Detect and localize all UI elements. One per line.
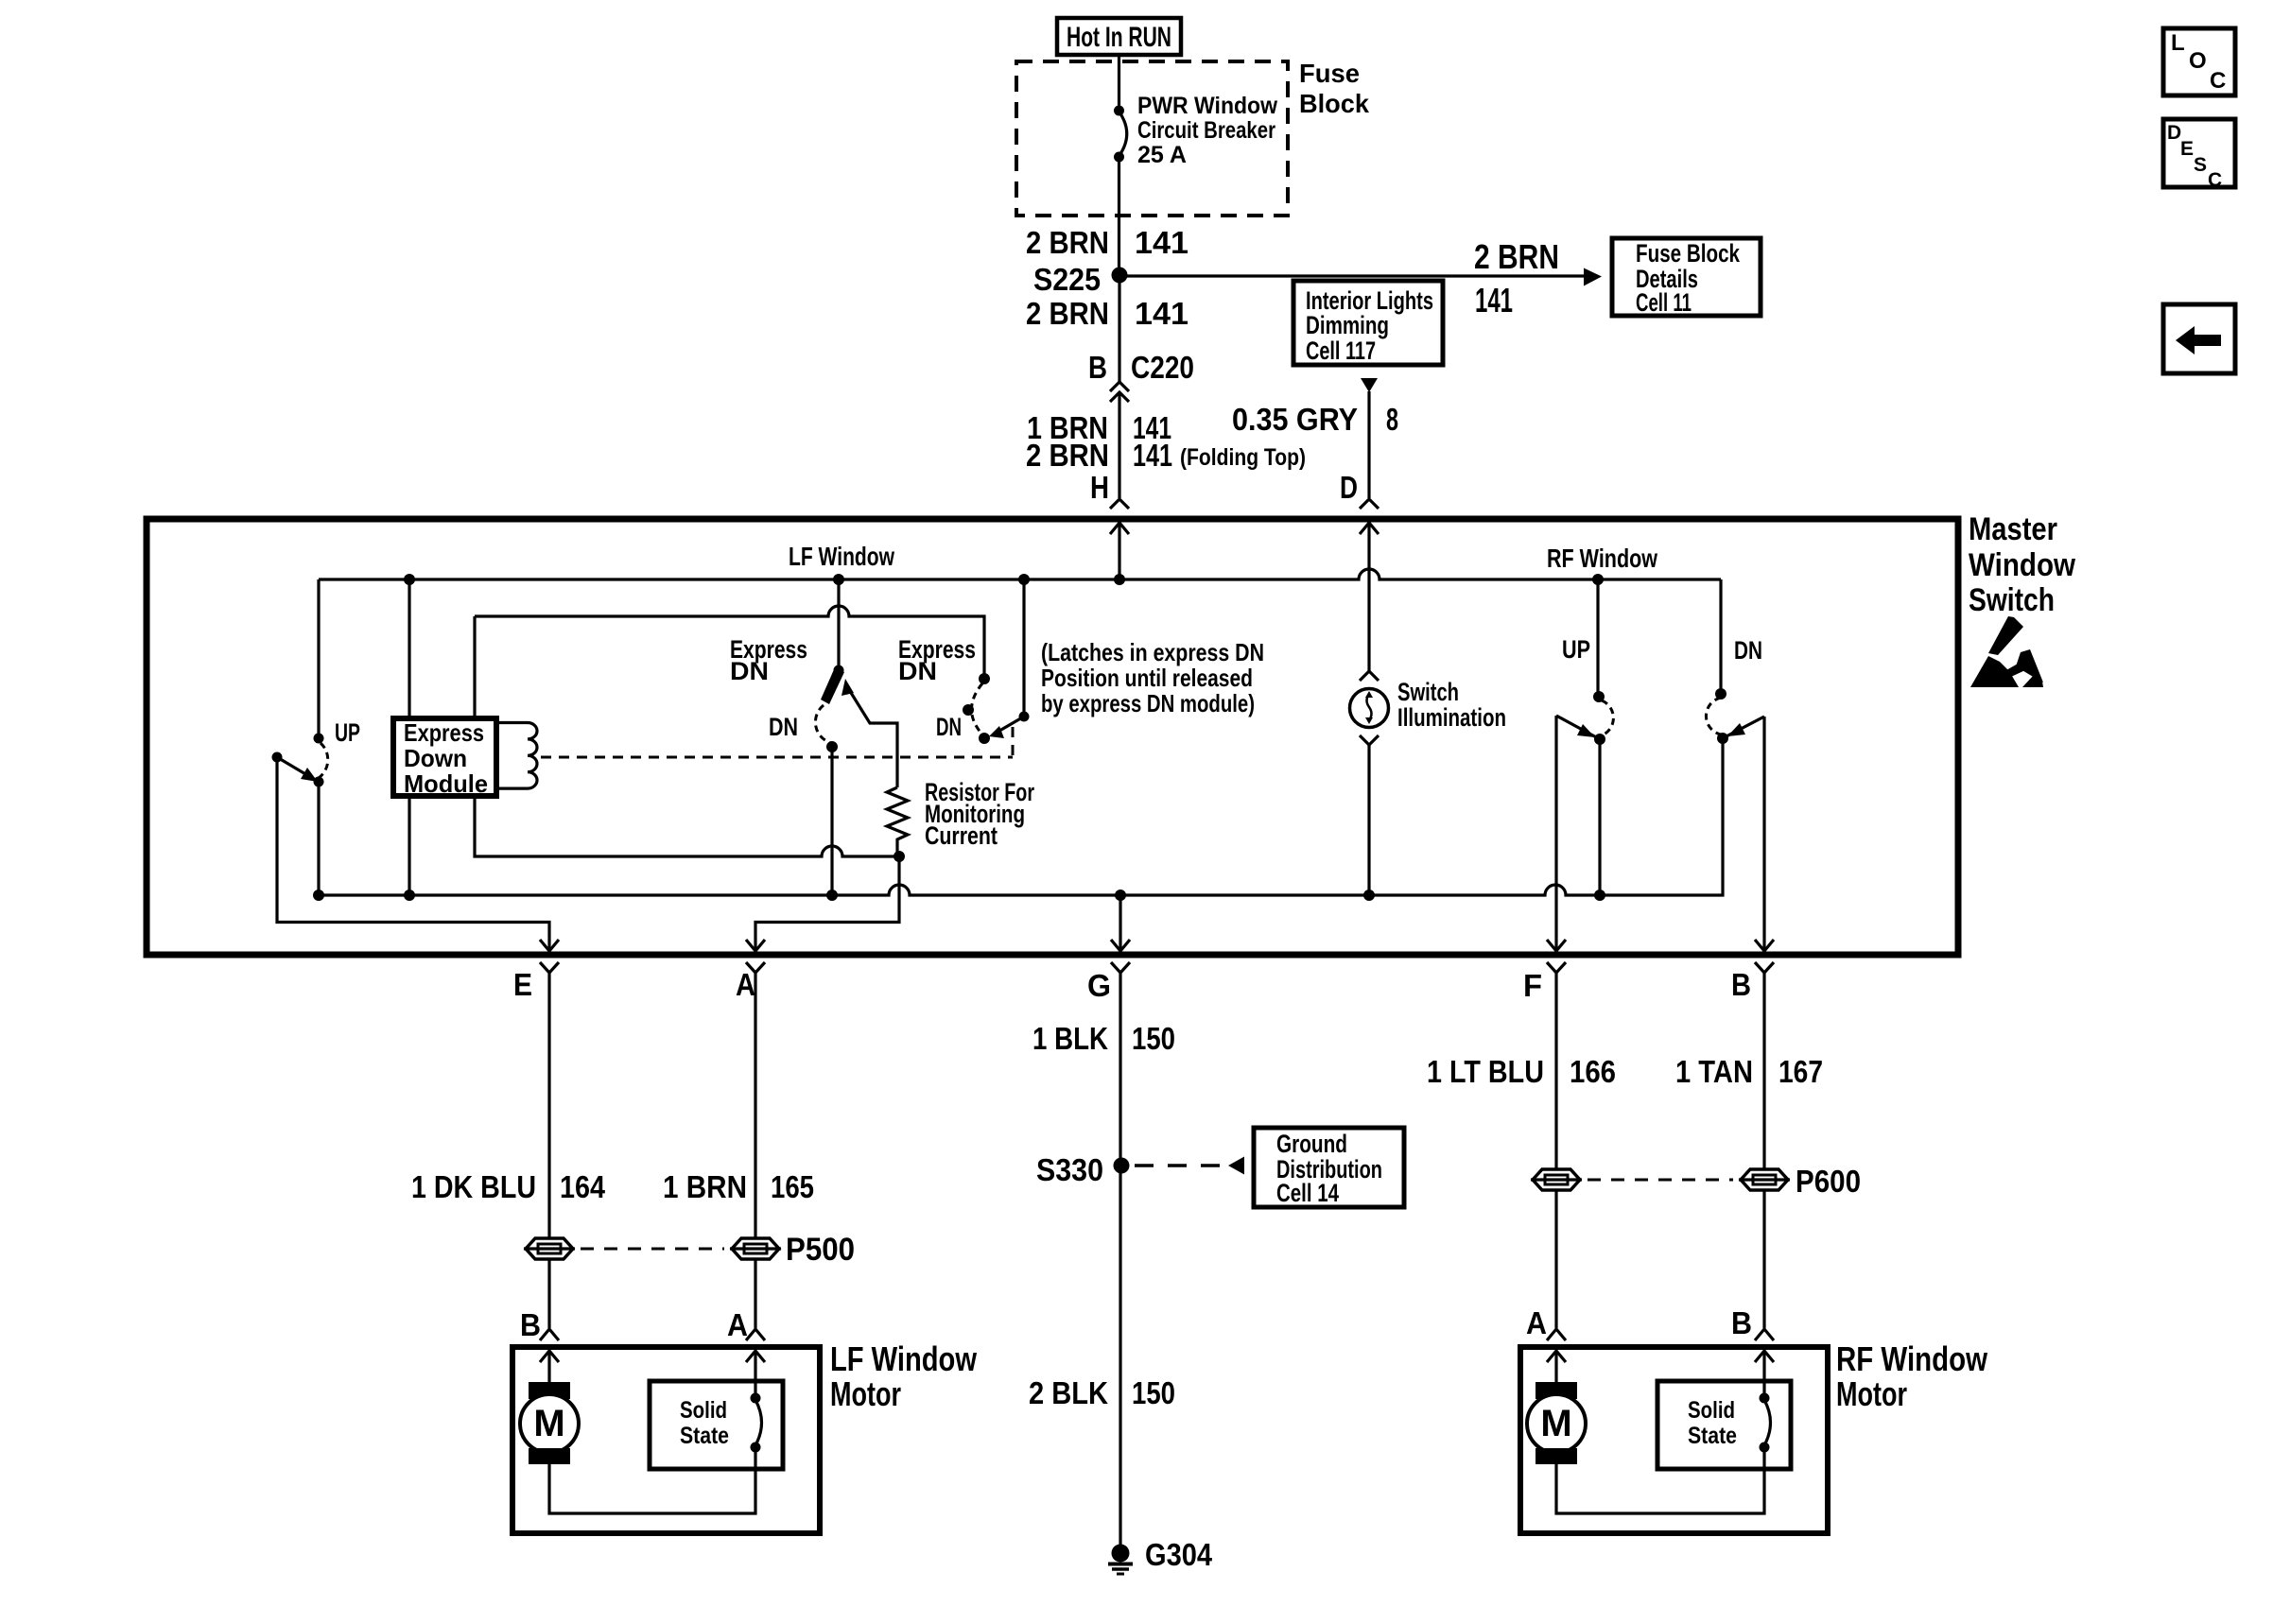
svg-text:DN: DN <box>936 713 962 741</box>
svg-text:DN: DN <box>1734 636 1762 665</box>
LF motor pin B connector <box>520 1307 559 1342</box>
svg-text:C: C <box>2210 68 2226 94</box>
wire label 1 BRN 165 <box>663 1169 814 1204</box>
svg-text:F: F <box>1523 968 1542 1003</box>
node: resistor to output <box>894 851 905 862</box>
svg-text:UP: UP <box>1562 635 1590 664</box>
svg-text:166: 166 <box>1570 1054 1616 1089</box>
LF solid state box <box>650 1381 783 1469</box>
svg-text:by express DN module): by express DN module) <box>1041 689 1255 717</box>
svg-text:PWR Window: PWR Window <box>1137 93 1278 119</box>
inner bus: module feed to right express-down contact (jumps over LF window wire) <box>475 606 984 718</box>
RF DN travel arc (dashed) <box>1706 698 1721 734</box>
svg-text:P600: P600 <box>1796 1164 1861 1199</box>
LOC reference box <box>2163 28 2235 95</box>
svg-text:B: B <box>1731 1305 1752 1340</box>
in-line connector P500 (E side) <box>524 1238 575 1259</box>
wire: LF UP pivot to pin E <box>277 758 549 949</box>
svg-text:C: C <box>2208 169 2222 191</box>
pin E exit arrow <box>540 940 559 951</box>
svg-text:M: M <box>1540 1403 1571 1444</box>
svg-text:Cell 11: Cell 11 <box>1636 288 1692 317</box>
LF motor M <box>520 1382 579 1464</box>
right express-down arm from bus <box>989 579 1030 738</box>
wire: P500 to LF motor pin A <box>754 1259 756 1328</box>
svg-text:Master: Master <box>1969 511 2057 547</box>
wire: B to connector P600 <box>1762 973 1765 1169</box>
svg-text:141: 141 <box>1133 438 1172 473</box>
lower bus wire (jumps over resistor output and F wire) <box>319 738 1723 895</box>
dashed link P600 <box>1588 1179 1733 1182</box>
svg-text:B: B <box>520 1307 541 1342</box>
svg-text:Circuit Breaker: Circuit Breaker <box>1137 117 1275 144</box>
wire: module bottom to lower bus <box>408 796 410 895</box>
label Resistor For Monitoring Current <box>925 778 1034 850</box>
pin F exit arrow <box>1547 940 1566 951</box>
in-line connector P600 (B side) <box>1739 1169 1790 1190</box>
LF UP switch travel arc (dashed) <box>319 743 328 778</box>
svg-text:State: State <box>680 1423 729 1449</box>
svg-text:State: State <box>1688 1423 1737 1449</box>
svg-text:Dimming: Dimming <box>1306 311 1389 339</box>
label RF Window Motor <box>1836 1339 1988 1413</box>
RF UP travel arc (dashed) <box>1602 700 1613 735</box>
circuit breaker PWR Window 25 A <box>1114 106 1127 163</box>
wire label 0.35 GRY 8 <box>1232 402 1398 437</box>
wire: interior lights dimming to pin D <box>1361 378 1378 498</box>
label LF Window Motor <box>830 1339 978 1413</box>
in-line connector P600 (F side) <box>1531 1169 1582 1190</box>
wire: S225 to connector C220 <box>1118 275 1120 382</box>
box Interior Lights Dimming Cell 117 <box>1293 281 1443 365</box>
svg-text:1 DK BLU: 1 DK BLU <box>411 1169 536 1204</box>
svg-text:E: E <box>2180 138 2194 160</box>
label Switch Illumination <box>1397 678 1506 732</box>
wire: F to connector P600 <box>1554 973 1557 1169</box>
svg-text:G304: G304 <box>1145 1537 1213 1572</box>
label Express DN (left) <box>730 635 807 685</box>
svg-text:Express: Express <box>404 718 484 747</box>
svg-text:Switch: Switch <box>1969 582 2055 618</box>
svg-text:2 BLK: 2 BLK <box>1029 1375 1108 1410</box>
LF motor A feed arrow <box>746 1351 765 1398</box>
RF UP switch arm to pin F <box>1556 716 1600 949</box>
wire label 2 BRN 141 (above S225) <box>1026 225 1189 260</box>
svg-text:DN: DN <box>898 657 937 685</box>
wire: E to connector P500 <box>547 973 550 1238</box>
svg-text:Window: Window <box>1969 547 2075 583</box>
svg-text:G: G <box>1087 968 1111 1003</box>
svg-text:D: D <box>1340 470 1358 505</box>
RF DN switch feed from bus corner <box>1715 579 1726 700</box>
RF motor M <box>1527 1382 1586 1464</box>
svg-text:A: A <box>736 967 755 1002</box>
wire: module bottom return to resistor (jumps over latch wire) <box>475 796 899 856</box>
wire: lower bus to pin G <box>1119 895 1121 949</box>
svg-text:Switch: Switch <box>1397 678 1459 706</box>
wire label 1 TAN 167 <box>1675 1054 1823 1089</box>
svg-text:164: 164 <box>560 1169 606 1204</box>
wire label 1 BRN 141 <box>1027 410 1171 445</box>
pin A connector <box>736 962 765 1002</box>
svg-text:Fuse Block: Fuse Block <box>1636 239 1741 268</box>
svg-text:2 BRN: 2 BRN <box>1026 225 1109 260</box>
box Ground Distribution Cell 14 <box>1254 1128 1404 1207</box>
ESD sensitive device symbol <box>1970 616 2043 687</box>
svg-text:H: H <box>1090 470 1109 505</box>
svg-text:L: L <box>2171 30 2185 56</box>
module coil <box>496 723 537 789</box>
node S225 <box>1033 262 1128 297</box>
svg-text:A: A <box>1526 1305 1547 1340</box>
LF motor internal return wire <box>549 1447 755 1513</box>
RF UP contact to lower bus <box>1594 734 1605 895</box>
wire: P600 to RF motor pin A <box>1554 1190 1557 1328</box>
svg-text:Solid: Solid <box>680 1397 727 1424</box>
svg-text:(Folding Top): (Folding Top) <box>1180 444 1306 471</box>
wire: latch contact to lower bus <box>830 747 833 895</box>
svg-text:P500: P500 <box>786 1232 855 1268</box>
label PWR Window Circuit Breaker 25 A <box>1137 93 1278 168</box>
svg-text:Hot In RUN: Hot In RUN <box>1067 22 1171 53</box>
svg-text:165: 165 <box>771 1169 814 1204</box>
wire: resistor junction to pin A <box>755 856 899 949</box>
wire: P600 to RF motor pin B <box>1762 1190 1765 1328</box>
pin F connector <box>1523 962 1566 1003</box>
svg-text:DN: DN <box>730 657 769 685</box>
resistor for monitoring current <box>887 787 908 856</box>
RF DN contact <box>1717 733 1728 744</box>
bus junction nodes <box>404 574 1604 585</box>
LF Window Motor box <box>512 1347 820 1533</box>
svg-text:LF Window: LF Window <box>789 542 894 571</box>
svg-text:0.35 GRY: 0.35 GRY <box>1232 402 1358 437</box>
LF window DN arm with arrow to resistor <box>842 679 897 787</box>
svg-text:C220: C220 <box>1131 350 1194 385</box>
wire label 2 BLK 150 <box>1029 1375 1175 1410</box>
RF motor pin B connector <box>1731 1305 1774 1340</box>
pin B exit arrow <box>1755 940 1774 951</box>
wire label 1 BLK 150 <box>1032 1021 1175 1056</box>
svg-text:Position until released: Position until released <box>1041 664 1253 692</box>
svg-text:Block: Block <box>1299 89 1369 118</box>
wire: bus to Express Down Module <box>408 579 410 718</box>
svg-text:1 BRN: 1 BRN <box>663 1169 747 1204</box>
svg-text:1 TAN: 1 TAN <box>1675 1054 1753 1089</box>
svg-text:(Latches in express DN: (Latches in express DN <box>1041 638 1264 666</box>
fuse block dashed outline <box>1016 61 1288 216</box>
LF window switch travel arc (dashed) <box>815 705 831 743</box>
svg-text:E: E <box>513 967 532 1002</box>
svg-text:DN: DN <box>769 713 798 741</box>
svg-text:Illumination: Illumination <box>1397 703 1506 732</box>
connector C220 pin B <box>1088 350 1194 402</box>
svg-text:Current: Current <box>925 821 998 850</box>
RF motor pin A connector <box>1526 1305 1566 1340</box>
right express-down travel arc (dashed) <box>972 683 983 734</box>
svg-text:S: S <box>2194 154 2207 176</box>
svg-text:M: M <box>533 1403 564 1444</box>
ground G304 <box>1108 1537 1213 1574</box>
svg-text:Cell 14: Cell 14 <box>1276 1179 1339 1207</box>
RF motor internal return wire <box>1556 1447 1764 1513</box>
svg-text:RF Window: RF Window <box>1547 544 1657 573</box>
wire label 1 DK BLU 164 <box>411 1169 606 1204</box>
svg-text:Motor: Motor <box>1836 1374 1907 1413</box>
wire: S330 to ground G304 <box>1119 1166 1121 1547</box>
LF motor pin A connector <box>727 1307 765 1342</box>
svg-text:25 A: 25 A <box>1137 142 1187 168</box>
svg-text:A: A <box>727 1307 748 1342</box>
pin D of master switch <box>1340 470 1379 509</box>
pin G connector <box>1087 962 1130 1003</box>
svg-text:D: D <box>2167 122 2181 144</box>
LF window switch pivot wire <box>834 579 844 676</box>
svg-text:Ground: Ground <box>1276 1130 1347 1158</box>
svg-text:Solid: Solid <box>1688 1397 1735 1424</box>
RF solid state breaker <box>1760 1393 1771 1453</box>
pin B connector <box>1731 962 1774 1002</box>
box Fuse Block Details Cell 11 <box>1612 238 1761 317</box>
wire: P500 to LF motor pin B <box>547 1259 550 1328</box>
pin A exit arrow <box>746 940 765 951</box>
svg-text:RF Window: RF Window <box>1836 1339 1988 1378</box>
LF UP switch arm and pivot <box>272 752 324 787</box>
splice S330 <box>1036 1152 1130 1187</box>
note: latches in express DN position <box>1041 638 1264 717</box>
wire: G to splice S330 <box>1119 973 1121 1166</box>
label Express DN (right) <box>898 635 976 685</box>
svg-text:S330: S330 <box>1036 1152 1103 1187</box>
lower bus junction nodes <box>313 890 1605 901</box>
Express Down Module box <box>393 718 496 798</box>
svg-text:1 LT BLU: 1 LT BLU <box>1427 1054 1544 1089</box>
wire: S225 branch to Fuse Block Details <box>1119 268 1602 286</box>
LF solid state breaker <box>751 1393 762 1453</box>
svg-text:150: 150 <box>1132 1021 1175 1056</box>
LF UP switch: feed wire and fixed contact <box>314 579 324 744</box>
svg-text:Motor: Motor <box>830 1374 901 1413</box>
label Fuse Block <box>1299 59 1369 118</box>
pin E connector <box>513 962 559 1002</box>
svg-text:UP: UP <box>335 718 360 747</box>
svg-text:Cell 117: Cell 117 <box>1306 337 1376 365</box>
wire label 2 BRN 141 (Folding Top) <box>1026 438 1306 473</box>
RF motor B feed arrow <box>1755 1351 1774 1398</box>
wire: pin D entering switch (illumination feed) <box>1360 523 1379 671</box>
power bus wire inside switch (jumps over D wire) <box>319 569 1721 579</box>
wire: A to connector P500 <box>754 973 756 1238</box>
svg-text:B: B <box>1088 350 1107 385</box>
RF UP switch feed and fixed contact <box>1593 579 1605 702</box>
LF window switch thick arm <box>821 667 844 704</box>
svg-text:141: 141 <box>1135 296 1189 331</box>
wire: C220 to pin H <box>1118 392 1120 498</box>
svg-text:Module: Module <box>404 769 488 798</box>
svg-text:2 BRN: 2 BRN <box>1026 296 1109 331</box>
power source label "Hot In RUN" <box>1057 18 1181 55</box>
svg-text:1 BLK: 1 BLK <box>1032 1021 1108 1056</box>
back arrow box <box>2163 304 2235 373</box>
label Master Window Switch <box>1969 511 2075 618</box>
svg-text:167: 167 <box>1778 1054 1823 1089</box>
RF motor A feed arrow <box>1547 1351 1566 1382</box>
svg-text:8: 8 <box>1386 402 1398 437</box>
RF Window Motor box <box>1520 1347 1828 1533</box>
svg-text:LF Window: LF Window <box>830 1339 978 1378</box>
wire label 2 BRN 141 (below S225) <box>1026 296 1189 331</box>
wire: pin H entering switch <box>1110 523 1129 579</box>
dashed reference to ground distribution <box>1135 1157 1244 1175</box>
svg-text:150: 150 <box>1132 1375 1175 1410</box>
switch illumination lamp <box>1350 671 1389 895</box>
dashed mechanical link from coil <box>541 724 1013 757</box>
svg-text:S225: S225 <box>1033 262 1101 297</box>
svg-text:Fuse: Fuse <box>1299 59 1360 88</box>
RF DN switch arm to pin B <box>1723 717 1764 949</box>
svg-text:Down: Down <box>404 744 467 772</box>
svg-text:2 BRN: 2 BRN <box>1026 438 1109 473</box>
pin G exit arrow <box>1111 940 1130 951</box>
svg-text:141: 141 <box>1475 281 1513 320</box>
svg-text:2 BRN: 2 BRN <box>1474 237 1559 276</box>
pin H of master switch <box>1090 470 1129 509</box>
Master Window Switch outline box <box>147 519 1958 955</box>
in-line connector P500 (A side) <box>730 1238 781 1259</box>
wire: LF UP contact down to lower bus <box>317 782 320 895</box>
svg-text:O: O <box>2189 48 2207 74</box>
svg-text:B: B <box>1731 967 1751 1002</box>
DESC reference box <box>2163 119 2235 191</box>
wire: breaker to node S225 <box>1118 158 1120 275</box>
wire: Hot In RUN to circuit breaker <box>1118 55 1120 110</box>
dashed link P500 <box>581 1248 724 1251</box>
right express-down switch fixed contacts <box>963 673 990 744</box>
wire label 2 BRN 141 (branch) <box>1474 237 1559 320</box>
LF motor B feed arrow <box>540 1351 559 1382</box>
svg-text:141: 141 <box>1135 225 1189 260</box>
wire label 1 LT BLU 166 <box>1427 1054 1616 1089</box>
LF window switch latch contact <box>826 741 838 752</box>
RF solid state box <box>1657 1381 1791 1469</box>
